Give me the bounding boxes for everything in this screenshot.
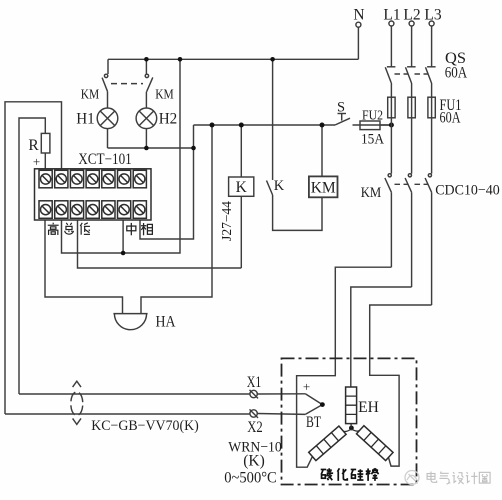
wire: X1 line [19,393,250,395]
wire: K contact to KM coil bottom [273,195,322,230]
resistor R [41,133,50,153]
svg-text:H2: H2 [159,111,178,128]
terminal screw bottom 2 [55,201,68,219]
terminal screw top 7 [133,170,146,188]
wire: control phase line [194,124,336,126]
contact KM b (right lamp contact) [145,59,147,74]
fuse FU1 b [408,97,415,118]
svg-text:BT: BT [306,414,321,431]
wire: zhong terminal lead [122,220,124,253]
bell HA [113,313,147,315]
svg-text:S: S [337,100,345,116]
svg-text:60A: 60A [440,110,462,127]
wire: L2 riser [411,26,413,67]
label xiang [141,223,152,235]
label zong [65,223,74,234]
svg-text:N: N [353,7,364,24]
right power section [297,21,436,467]
svg-text:KM: KM [311,180,336,197]
svg-text:0~500°C: 0~500°C [224,470,277,487]
fuse FU1 a [388,97,395,118]
terminal screw top 5 [102,170,115,188]
svg-text:X2: X2 [247,419,263,436]
svg-text:(K): (K) [243,453,265,470]
wire: top neutral bus [108,58,358,60]
compensating cable marker [71,392,83,416]
svg-text:J27−44: J27−44 [219,201,234,241]
svg-text:60A: 60A [445,65,468,82]
terminal screw bottom 7 [133,201,146,219]
contact KM main 1 [388,174,391,177]
switch S tick [338,113,347,115]
terminal L1 [389,21,394,26]
svg-text:K: K [274,178,285,194]
switch QS pole 2 [407,66,416,68]
wire: K coil top lead [240,125,242,177]
wire: N riser [357,27,359,59]
svg-text:15A: 15A [361,132,385,148]
wire: outer loop terminal2 top [5,102,62,414]
svg-text:L1: L1 [383,7,400,24]
wire: L1 drop [390,83,392,174]
wire: star links to rods [343,429,351,432]
wire: L3 drop [431,83,433,174]
wire: phase 1 jog to furnace [297,267,392,467]
terminal screw bottom 1 [39,201,52,219]
wire: S to FU2 [353,124,392,126]
label gao [48,223,59,235]
relay coil K (J27-44) [229,177,254,196]
dashed linkage QS [395,73,429,75]
terminal screw bottom 3 [70,201,83,219]
svg-text:R: R [28,137,39,154]
heater EH element [346,387,357,424]
wire: EH bottom to star point [350,424,352,428]
terminal L2 [409,21,414,26]
terminal L3 [429,21,434,26]
svg-text:L2: L2 [403,7,420,24]
contactor coil KM [309,176,338,197]
svg-text:HA: HA [156,314,177,331]
rod right (silicon carbide) [356,426,393,461]
wire: X2 line [5,413,250,415]
rod left (silicon carbide) [309,426,346,461]
svg-text:K: K [236,179,248,196]
svg-text:EH: EH [358,399,379,416]
terminal screw bottom 5 [102,201,115,219]
wire: lamp leads down [107,129,109,148]
lamp H1 [97,108,118,129]
contact KM main 3 [428,174,431,177]
wire: X2 to BT [257,413,305,416]
terminal screw bottom 6 [118,201,131,219]
furnace dash-dot enclosure [282,358,417,484]
wire: gao terminal to bell [45,220,123,314]
terminal X1 [250,390,257,397]
terminal X2 [250,410,257,417]
terminal screw top 3 [70,170,83,188]
terminal screw top 4 [86,170,99,188]
terminal screw top 1 [39,170,52,188]
switch QS pole 3 [427,66,436,68]
svg-text:X1: X1 [247,374,262,391]
label zhong [127,223,136,235]
svg-text:KM: KM [81,88,100,103]
wire: KM coil top lead [321,125,323,176]
contact KM a (left lamp contact) [107,59,109,74]
wire: R top lead and inner loop [19,118,45,394]
fuse FU2 [360,121,380,130]
svg-text:+: + [303,379,310,394]
svg-text:KM: KM [155,88,174,103]
terminal screw bottom 4 [86,201,99,219]
wire: di terminal to K coil [78,220,242,268]
terminal screw top 6 [118,170,131,188]
terminal screw top 2 [55,170,68,188]
dashed mechanical linkage of KM lamp contacts [111,83,143,85]
fuse FU1 c [428,97,435,118]
wire: L2 drop [411,83,413,174]
watermark icon [405,471,419,485]
label di [80,223,90,235]
lamp H2 [136,108,157,129]
wire: phase drop x=193.5 to xiang terminal [140,125,194,239]
wire: R bottom lead [44,153,46,169]
svg-text:+: + [33,154,40,169]
svg-text:XCT−101: XCT−101 [78,151,132,168]
svg-text:FU2: FU2 [362,109,383,124]
wire: K coil bottom lead [240,196,242,268]
wire: phase 2 jog to EH [351,287,412,387]
wire: L3 riser [431,26,433,67]
label tan-hua-gui-bang (carbide rods caption) [321,468,379,481]
dashed linkage KM main [395,183,429,185]
terminal N circle [356,22,361,27]
svg-text:KC−GB−VV70(K): KC−GB−VV70(K) [91,418,199,434]
wire: FU2 to L1 column [380,124,391,126]
svg-text:KM: KM [361,185,382,201]
wire: K contact branch from bus [272,59,274,180]
thermocouple BT [305,394,322,415]
terminal block XCT-101 [35,169,152,220]
contact K (temperature relay contact) [267,181,273,196]
svg-text:L3: L3 [424,7,441,24]
svg-text:H1: H1 [76,111,95,128]
block column labels (CJK) [48,223,153,236]
wire: bell feed x=212 [141,125,212,314]
wire: phase 3 jog to furnace [370,305,432,466]
switch QS pole 1 [387,66,396,68]
wire: lamp return line [108,147,194,149]
switch S blade [335,118,350,125]
svg-text:CDC10−40: CDC10−40 [435,183,500,199]
wire: X1 to BT [257,393,305,395]
wire: N drop to block [62,59,181,253]
watermark text dianqi shejiquan [427,472,490,485]
wire: L1 riser [390,26,392,67]
contact KM main 2 [408,174,411,177]
